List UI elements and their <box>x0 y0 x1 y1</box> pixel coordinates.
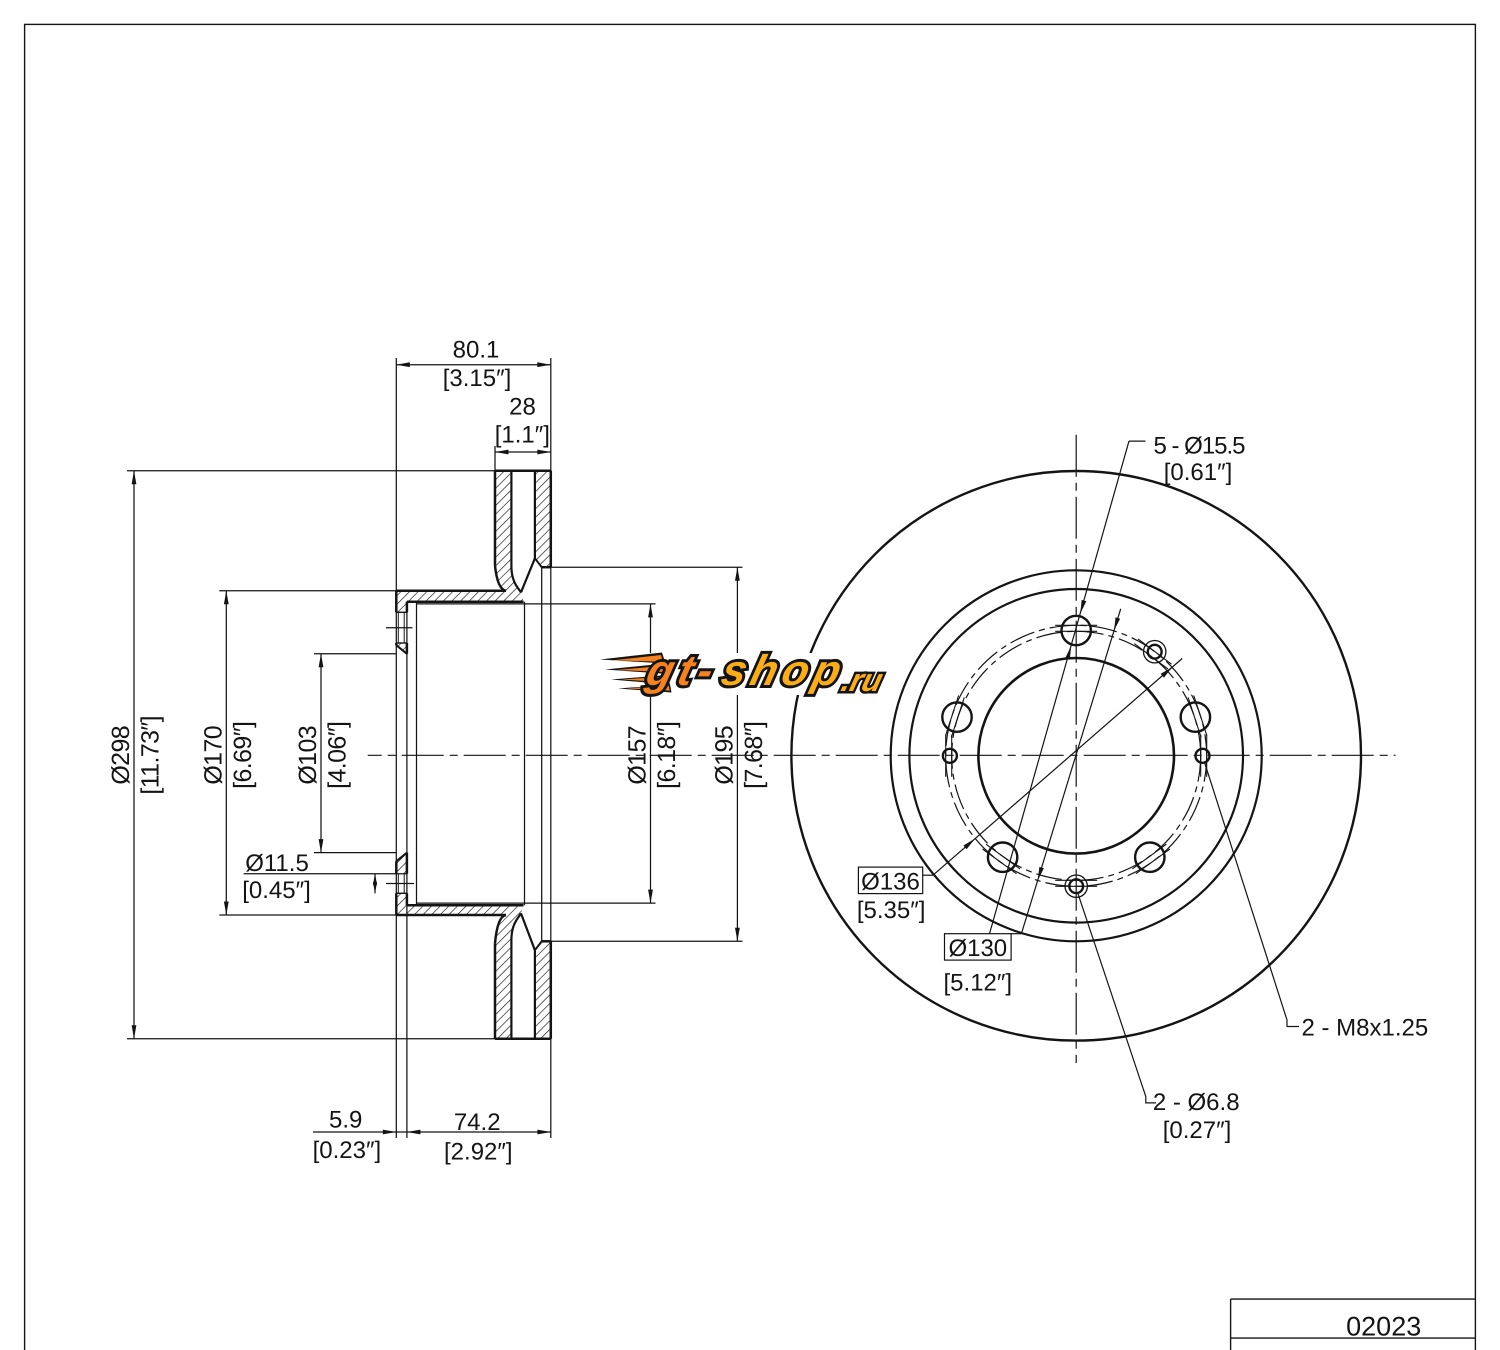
svg-text:2 - Ø6.8: 2 - Ø6.8 <box>1153 1089 1240 1116</box>
svg-text:Ø103: Ø103 <box>294 726 322 785</box>
svg-text:gt-: gt- <box>641 647 724 695</box>
svg-text:[7.68″]: [7.68″] <box>740 722 768 789</box>
svg-text:28: 28 <box>509 393 536 420</box>
svg-text:[4.06″]: [4.06″] <box>324 722 352 789</box>
svg-text:shop: shop <box>717 647 852 695</box>
svg-text:[11.73″]: [11.73″] <box>137 716 165 795</box>
svg-text:5 - Ø15.5: 5 - Ø15.5 <box>1153 432 1245 459</box>
svg-text:[0.27″]: [0.27″] <box>1163 1117 1232 1144</box>
svg-text:[2.92″]: [2.92″] <box>444 1138 513 1165</box>
svg-text:Ø298: Ø298 <box>107 726 135 785</box>
svg-text:[0.45″]: [0.45″] <box>242 877 311 904</box>
svg-text:5.9: 5.9 <box>329 1107 362 1134</box>
svg-text:02023: 02023 <box>1346 1311 1421 1341</box>
svg-text:2 - M8x1.25: 2 - M8x1.25 <box>1302 1015 1429 1042</box>
svg-text:[6.69″]: [6.69″] <box>229 722 257 789</box>
svg-text:Ø157: Ø157 <box>624 726 652 785</box>
svg-text:Ø136: Ø136 <box>861 868 920 895</box>
svg-text:Ø195: Ø195 <box>710 726 738 785</box>
svg-text:Ø130: Ø130 <box>948 935 1007 962</box>
svg-text:[6.18″]: [6.18″] <box>653 722 681 789</box>
svg-text:[0.61″]: [0.61″] <box>1164 459 1233 486</box>
svg-text:Ø170: Ø170 <box>199 726 227 785</box>
svg-text:74.2: 74.2 <box>454 1109 501 1136</box>
svg-text:[1.1″]: [1.1″] <box>495 422 550 449</box>
svg-text:[5.35″]: [5.35″] <box>857 897 926 924</box>
svg-text:80.1: 80.1 <box>453 337 500 364</box>
svg-text:[3.15″]: [3.15″] <box>443 365 512 392</box>
svg-text:[5.12″]: [5.12″] <box>944 969 1013 996</box>
svg-text:[0.23″]: [0.23″] <box>313 1137 382 1164</box>
svg-text:Ø11.5: Ø11.5 <box>245 850 309 877</box>
